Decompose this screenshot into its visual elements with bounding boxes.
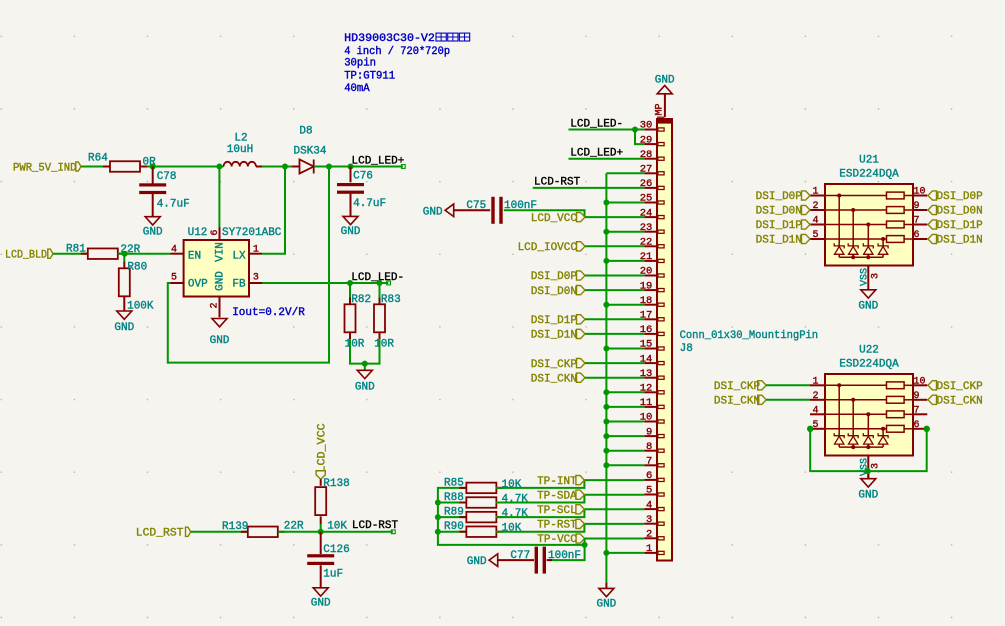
wire R88 jog to J8 pin	[496, 495, 645, 503]
svg-text:1: 1	[253, 245, 259, 256]
hierarchical label DSI_D1N at J8 pin 16	[531, 329, 585, 341]
svg-text:DSI_D0P: DSI_D0P	[531, 271, 578, 283]
svg-text:C78: C78	[157, 171, 177, 183]
U22 pin 4	[810, 405, 825, 416]
svg-text:10uH: 10uH	[227, 144, 253, 156]
svg-text:4: 4	[646, 499, 652, 511]
svg-text:TP-VCC: TP-VCC	[537, 534, 577, 546]
resistor R82	[345, 283, 372, 350]
svg-text:3: 3	[871, 273, 882, 279]
junction GND pin 8	[603, 448, 609, 454]
U21 pin 10	[913, 187, 927, 198]
svg-text:C77: C77	[510, 550, 530, 562]
wire pin29 branch	[635, 130, 644, 145]
svg-text:GND: GND	[655, 74, 675, 86]
svg-text:10K: 10K	[327, 520, 347, 532]
wire pin28 LCD_LED+	[569, 158, 645, 160]
ground below J8	[596, 583, 616, 611]
pin 27 of J8	[640, 164, 664, 176]
capacitor C75	[454, 197, 537, 224]
U21 pin 1	[810, 187, 825, 198]
wire D8 to LCD_LED+	[314, 166, 403, 168]
chip U21 ESD224DQA body	[825, 155, 913, 266]
pin 9 of J8	[644, 426, 664, 438]
wire bus to R89	[438, 516, 467, 518]
wire J8 GND bus	[605, 173, 607, 582]
svg-text:LCD_RST: LCD_RST	[136, 528, 184, 540]
svg-text:9: 9	[646, 426, 652, 438]
svg-text:FB: FB	[232, 279, 246, 291]
hierarchical label DSI_D0P left of U21	[756, 191, 810, 203]
svg-text:DSI_D1N: DSI_D1N	[756, 235, 802, 247]
label LCD_LED+ at J8	[570, 147, 623, 159]
wire PWR_5V_IND to R64	[81, 166, 103, 168]
svg-text:DSI_D1P: DSI_D1P	[531, 315, 578, 327]
junction GND pin 1	[603, 550, 609, 556]
svg-text:DSI_D1N: DSI_D1N	[937, 235, 983, 247]
inductor L2	[224, 132, 263, 166]
wire TP-VCC to J8	[585, 538, 645, 540]
wire L2 to D8	[262, 166, 299, 168]
svg-text:OVP: OVP	[188, 279, 208, 291]
svg-text:PWR_5V_IND: PWR_5V_IND	[13, 163, 77, 175]
resistor R88	[444, 492, 528, 508]
svg-text:4.7K: 4.7K	[502, 508, 529, 520]
U22 pin 5	[810, 420, 825, 431]
svg-text:GND: GND	[467, 556, 487, 568]
svg-text:7: 7	[914, 216, 920, 227]
svg-text:3: 3	[253, 273, 259, 284]
junction LX node	[282, 164, 288, 170]
wire DSI_CKN to U22	[766, 399, 810, 401]
svg-text:GND: GND	[341, 226, 361, 238]
wire OVP loop	[168, 167, 329, 363]
U22 TVS diode 4	[878, 427, 888, 447]
ground left of C75	[423, 204, 454, 218]
wire pin 14 DSI_CKP	[585, 362, 644, 364]
svg-text:GND: GND	[214, 271, 226, 291]
junction GND pin 25	[603, 200, 609, 206]
capacitor C126	[307, 532, 350, 581]
pin 6 of J8	[644, 470, 664, 482]
hierarchical label LCD_VCC vertical	[316, 423, 328, 479]
svg-text:4 inch / 720*720p: 4 inch / 720*720p	[344, 46, 450, 58]
hierarchical label DSI_D0N right of U21	[928, 205, 983, 217]
svg-text:LX: LX	[232, 250, 246, 262]
pin 4 EN	[171, 245, 202, 263]
svg-text:DSI_CKN: DSI_CKN	[714, 396, 760, 408]
U21 TVS diode 2	[848, 208, 858, 257]
wire GND pin 23	[606, 231, 644, 233]
svg-text:1uF: 1uF	[323, 568, 343, 580]
svg-text:R139: R139	[222, 521, 248, 533]
ground left of C77	[467, 554, 498, 568]
U22 pin 10	[913, 376, 927, 387]
svg-text:DSI_D1N: DSI_D1N	[531, 330, 577, 342]
diode D8 DSK34	[292, 126, 327, 174]
label LCD_LED+	[352, 155, 406, 168]
pin 3 of J8	[644, 514, 664, 526]
svg-text:5: 5	[171, 273, 177, 284]
U22 pin 1	[810, 376, 825, 387]
U21 pin 3 VSS	[860, 266, 882, 290]
svg-text:GND: GND	[143, 227, 163, 239]
svg-text:2: 2	[646, 529, 652, 541]
U21 pin 2	[810, 201, 825, 212]
hierarchical label LCD_IOVCC at J8 pin 22	[518, 242, 585, 254]
svg-text:R90: R90	[444, 521, 464, 533]
svg-text:10: 10	[914, 376, 926, 387]
hierarchical label DSI_D1N right of U21	[928, 234, 983, 246]
U21 TVS diode 4	[878, 237, 888, 257]
capacitor C77	[498, 547, 581, 574]
hierarchical label DSI_D1P right of U21	[928, 220, 983, 232]
junction R83 node	[377, 280, 383, 286]
junction GND pin 21	[603, 258, 609, 264]
wire VIN drop	[218, 167, 220, 228]
U22 pin 9	[913, 391, 927, 402]
U22 pin 7	[913, 405, 927, 416]
svg-text:EN: EN	[188, 250, 201, 262]
pin 17 of J8	[640, 310, 664, 322]
ground below R82 R83	[355, 370, 375, 393]
svg-text:DSK34: DSK34	[293, 146, 326, 158]
pin 5 of J8	[644, 485, 664, 497]
wire GND pin 15	[606, 348, 644, 350]
svg-text:U22: U22	[859, 345, 879, 357]
svg-text:GND: GND	[858, 490, 878, 502]
svg-text:4.7K: 4.7K	[502, 494, 529, 506]
wire R64 to L2	[147, 166, 224, 168]
svg-text:100nF: 100nF	[548, 550, 581, 562]
svg-text:2: 2	[812, 201, 818, 212]
hierarchical label DSI_CKP left of U22	[714, 381, 766, 393]
wire pin30 LCD_LED-	[569, 129, 645, 131]
svg-text:VIN: VIN	[214, 242, 226, 262]
hierarchical label DSI_CKP right of U22	[928, 381, 983, 393]
svg-text:C75: C75	[466, 200, 486, 212]
svg-text:R80: R80	[127, 262, 147, 274]
U21 row 1 internal	[825, 192, 913, 199]
pin 4 of J8	[644, 499, 664, 511]
resistor R83	[374, 283, 401, 350]
svg-text:4: 4	[171, 245, 177, 256]
pin 25 of J8	[640, 193, 664, 205]
svg-text:R85: R85	[444, 477, 464, 489]
svg-text:6: 6	[914, 230, 920, 241]
ground below U12	[210, 319, 230, 348]
U21 row 4 internal	[825, 236, 913, 243]
junction U22 pin5	[807, 426, 813, 432]
junction GND pin 11	[603, 404, 609, 410]
wire GND pin 18	[606, 304, 644, 306]
hierarchical label LCD_BLD	[5, 249, 53, 262]
wire GND pin 9	[606, 435, 644, 437]
wire R82 R83 to ground	[349, 332, 351, 340]
svg-text:DSI_CKN: DSI_CKN	[937, 396, 983, 408]
junction C78 node	[150, 164, 156, 170]
svg-text:LCD_LED+: LCD_LED+	[352, 155, 405, 167]
wire GND pin 1	[606, 552, 644, 554]
pin 1 LX	[232, 245, 262, 263]
hierarchical label DSI_CKP at J8 pin 14	[531, 359, 585, 371]
ground below R80	[114, 296, 134, 334]
svg-text:C126: C126	[323, 544, 349, 556]
svg-text:GND: GND	[858, 301, 878, 313]
svg-text:GND: GND	[596, 599, 616, 611]
svg-text:40mA: 40mA	[344, 83, 370, 95]
svg-text:VSS: VSS	[860, 268, 871, 286]
wire GND pin 27	[606, 172, 644, 174]
wire R139 to LCD-RST	[278, 531, 393, 533]
pin 2 of J8	[644, 529, 664, 541]
svg-text:2: 2	[812, 391, 818, 402]
wire FB to LCD_LED-	[262, 282, 388, 284]
junction GND pin 12	[603, 389, 609, 395]
svg-text:Iout=0.2V/R: Iout=0.2V/R	[232, 307, 305, 319]
svg-text:DSI_D1P: DSI_D1P	[756, 220, 803, 232]
hierarchical label DSI_D1P left of U21	[756, 220, 810, 232]
svg-text:MP: MP	[655, 103, 666, 115]
pin 21 of J8	[640, 251, 664, 263]
hierarchical label DSI_D0N at J8 pin 19	[531, 286, 585, 298]
pin 20 of J8	[640, 266, 664, 278]
junction C76 node	[348, 164, 354, 170]
U21 pin 9	[913, 201, 927, 212]
capacitor C78	[139, 167, 190, 211]
pin 5 OVP	[171, 273, 209, 291]
junction TP bus R90	[435, 529, 441, 535]
U21 TVS diode 3	[863, 223, 873, 258]
wire R85 jog to J8 pin	[496, 480, 645, 488]
U22 pin 3 VSS	[860, 456, 882, 480]
svg-text:R89: R89	[444, 507, 464, 519]
svg-text:DSI_CKN: DSI_CKN	[531, 373, 577, 385]
hierarchical label DSI_CKN at J8 pin 13	[531, 373, 585, 385]
U22 row 1 internal	[825, 382, 913, 389]
hierarchical label DSI_CKN right of U22	[928, 395, 983, 407]
svg-text:4.7uF: 4.7uF	[157, 199, 190, 211]
wire GND pin 12	[606, 391, 644, 393]
pin 2 GND	[210, 271, 227, 318]
svg-text:DSI_D1P: DSI_D1P	[937, 220, 984, 232]
ground below C76	[341, 194, 361, 239]
junction pin30	[632, 127, 638, 133]
svg-text:7: 7	[914, 405, 920, 416]
svg-text:TP:GT911: TP:GT911	[344, 71, 395, 83]
U22 TVS diode 1	[834, 383, 844, 447]
svg-text:30pin: 30pin	[344, 58, 376, 70]
wire TP-VCC down to C77	[550, 539, 585, 561]
svg-text:3: 3	[871, 463, 882, 469]
junction U22 VSS	[865, 468, 871, 474]
U22 TVS diode 2	[848, 398, 858, 447]
hierarchical label DSI_D1P at J8 pin 17	[531, 315, 585, 327]
resistor R64	[88, 153, 156, 172]
svg-text:6: 6	[914, 420, 920, 431]
svg-text:6: 6	[646, 470, 652, 482]
pin 15 of J8	[640, 339, 664, 351]
hierarchical label DSI_D1N left of U21	[756, 234, 810, 246]
junction R138 node	[318, 529, 324, 535]
U21 pin 6	[913, 230, 927, 241]
pin 23 of J8	[640, 222, 664, 234]
junction U22 pin6	[924, 426, 930, 432]
svg-text:5: 5	[646, 485, 652, 497]
svg-text:TP-SCL: TP-SCL	[537, 505, 577, 517]
hierarchical label TP-VCC	[537, 534, 584, 546]
resistor R138	[315, 478, 350, 532]
svg-text:9: 9	[914, 201, 920, 212]
svg-text:1: 1	[646, 543, 652, 555]
wire R138 to junction	[320, 516, 322, 524]
svg-text:LCD_BLD: LCD_BLD	[5, 250, 47, 262]
svg-text:LCD_VCC: LCD_VCC	[531, 213, 578, 225]
svg-text:LCD_IOVCC: LCD_IOVCC	[518, 242, 578, 254]
label LCD_LED- at J8	[570, 118, 623, 130]
hierarchical label LCD_VCC at J8 pin 24	[531, 213, 585, 225]
svg-text:TP-RST: TP-RST	[537, 520, 577, 532]
wire pin 20 DSI_D0P	[585, 275, 644, 277]
resistor R139	[222, 520, 304, 537]
junction VIN node	[216, 164, 222, 170]
U22 row 2 internal	[825, 396, 913, 403]
op-amp U12 SY7201ABC body	[184, 227, 282, 297]
pin 22 of J8	[640, 237, 664, 249]
wire pin 17 DSI_D1P	[585, 318, 644, 320]
wire pin 19 DSI_D0N	[585, 289, 644, 291]
svg-text:ESD224DQA: ESD224DQA	[839, 359, 899, 371]
U21 bottom rail	[839, 255, 883, 259]
junction R82 node	[347, 280, 353, 286]
svg-text:R81: R81	[66, 244, 86, 256]
junction GND pin 10	[603, 419, 609, 425]
pin 29 of J8	[640, 134, 664, 146]
capacitor C76	[337, 167, 386, 211]
wire U22 pin5 to ground rail	[810, 429, 927, 471]
U21 row 2 internal	[825, 207, 913, 214]
junction GND pin 7	[603, 462, 609, 468]
pin 16 of J8	[640, 324, 664, 336]
svg-text:C76: C76	[353, 171, 373, 183]
pin 6 VIN	[210, 227, 226, 262]
svg-text:1: 1	[812, 376, 818, 387]
wire TP bus left	[438, 488, 585, 545]
U21 pin 7	[913, 216, 927, 227]
pin 8 of J8	[644, 441, 664, 453]
hierarchical label PWR_5V_IND	[13, 162, 81, 175]
svg-text:Conn_01x30_MountingPin: Conn_01x30_MountingPin	[680, 330, 819, 342]
svg-text:DSI_CKP: DSI_CKP	[531, 359, 578, 371]
ground below U22	[858, 471, 878, 502]
svg-text:22R: 22R	[284, 520, 304, 532]
svg-text:GND: GND	[355, 381, 375, 393]
hierarchical label TP-INT	[537, 476, 584, 488]
hierarchical label DSI_D0N left of U21	[756, 205, 810, 217]
wire LCD_BLD to R81	[53, 253, 88, 255]
ground below C126	[311, 565, 331, 609]
junction R82 R83 gnd	[362, 361, 368, 367]
hierarchical label DSI_D0P right of U21	[928, 191, 983, 203]
hierarchical label LCD_RST	[136, 527, 191, 539]
U22 TVS diode 3	[863, 412, 873, 447]
U22 pin 6	[913, 420, 927, 431]
U21 pin 5	[810, 230, 825, 241]
svg-text:9: 9	[914, 391, 920, 402]
U22 row 4 internal	[825, 425, 913, 432]
svg-text:LCD_LED-: LCD_LED-	[351, 272, 404, 284]
svg-text:D8: D8	[299, 126, 312, 138]
junction GND pin 23	[603, 229, 609, 235]
U22 row 3 internal	[825, 411, 913, 418]
svg-text:U12: U12	[188, 227, 208, 239]
junction TP bus R88	[435, 500, 441, 506]
U21 pin 4	[810, 216, 825, 227]
junction GND pin 9	[603, 433, 609, 439]
pin MP	[655, 94, 666, 117]
wire pin 24 LCD_VCC	[585, 216, 644, 218]
svg-text:TP-SDA: TP-SDA	[537, 490, 577, 502]
wire bus to R90	[438, 531, 467, 533]
svg-text:7: 7	[646, 456, 652, 468]
svg-text:DSI_D0N: DSI_D0N	[531, 286, 577, 298]
hierarchical label TP-RST	[537, 519, 584, 531]
svg-text:3: 3	[646, 514, 652, 526]
junction TP-VCC bus	[582, 542, 588, 548]
svg-text:LCD_VCC: LCD_VCC	[316, 423, 328, 473]
U22 bottom rail	[839, 445, 883, 449]
hierarchical label TP-SDA	[537, 490, 584, 502]
svg-text:GND: GND	[423, 206, 443, 218]
svg-text:R64: R64	[88, 153, 108, 165]
pin 24 of J8	[640, 207, 664, 219]
svg-text:4: 4	[812, 216, 818, 227]
wire pin26 LCD-RST	[533, 187, 645, 189]
pin 11 of J8	[640, 397, 664, 409]
svg-text:LCD-RST: LCD-RST	[534, 177, 581, 189]
svg-text:10: 10	[914, 187, 926, 198]
wire pin 13 DSI_CKN	[585, 377, 644, 379]
pin 1 of J8	[644, 543, 664, 555]
label LCD-RST bottom	[352, 520, 399, 534]
pin 13 of J8	[640, 368, 664, 380]
wire C75 to LCD_VCC	[504, 210, 585, 216]
pin 14 of J8	[640, 353, 664, 365]
wire bus to R88	[438, 502, 467, 504]
svg-text:6: 6	[210, 230, 221, 236]
resistor R81	[66, 244, 141, 259]
svg-text:SY7201ABC: SY7201ABC	[222, 227, 282, 239]
svg-text:GND: GND	[311, 598, 331, 610]
svg-text:DSI_D0P: DSI_D0P	[937, 191, 984, 203]
svg-text:ESD224DQA: ESD224DQA	[839, 169, 899, 181]
wire GND pin 7	[606, 464, 644, 466]
label LCD-RST at J8	[534, 177, 581, 189]
resistor R89	[444, 507, 528, 523]
ground above J8	[655, 74, 675, 94]
svg-text:5: 5	[812, 230, 818, 241]
svg-text:DSI_D0N: DSI_D0N	[756, 206, 802, 218]
wire GND pin 8	[606, 450, 644, 452]
svg-text:DSI_D0N: DSI_D0N	[937, 206, 983, 218]
pin 7 of J8	[644, 456, 664, 468]
svg-text:10R: 10R	[345, 338, 365, 350]
svg-text:8: 8	[646, 441, 652, 453]
resistor R80	[119, 254, 154, 313]
hierarchical label DSI_CKN left of U22	[714, 395, 766, 407]
svg-text:LCD_LED+: LCD_LED+	[570, 147, 623, 159]
pin 18 of J8	[640, 295, 664, 307]
